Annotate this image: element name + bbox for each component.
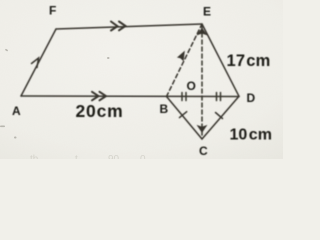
arrow mark on AF: [32, 58, 39, 68]
line AF: [21, 29, 56, 96]
double arrow mark on AB (chevron 2): [100, 92, 107, 101]
svg-text:t: t: [75, 154, 78, 159]
arrowhead down on EC near C: [198, 126, 206, 132]
line FE: [56, 24, 202, 29]
double tick on BO: [182, 93, 186, 101]
faint scan speckles: [0, 49, 110, 139]
svg-text:D: D: [247, 91, 256, 105]
line ED: [202, 24, 239, 96]
line BC: [167, 97, 203, 140]
dashed line EC (vertical through O): [201, 26, 203, 138]
line AD (horizontal through B and O): [21, 95, 239, 98]
svg-text:0: 0: [140, 154, 146, 159]
svg-text:th: th: [30, 154, 38, 159]
svg-text:E: E: [203, 5, 211, 19]
double arrow mark on AB (chevron 1): [92, 92, 99, 101]
arrowhead up on EC near E: [198, 29, 206, 35]
double tick on OD: [217, 93, 221, 101]
svg-text:O: O: [187, 79, 196, 93]
paper grain: [0, 0, 283, 159]
svg-text:20cm: 20cm: [76, 101, 124, 121]
double arrow mark on FE (chevron 2): [119, 22, 126, 31]
svg-text:A: A: [12, 104, 21, 118]
faint cropped caption at bottom edge: [30, 154, 146, 165]
arrow mark on BE: [178, 52, 184, 60]
line CD: [202, 96, 239, 139]
svg-text:B: B: [160, 102, 169, 116]
svg-text:90: 90: [108, 154, 120, 159]
svg-text:10cm: 10cm: [230, 127, 272, 144]
dashed line BE: [167, 25, 202, 97]
svg-text:17cm: 17cm: [227, 52, 271, 70]
single tick on CD: [216, 113, 223, 119]
double arrow mark on FE (chevron 1): [111, 22, 118, 31]
svg-text:F: F: [49, 4, 56, 18]
single tick on BC: [180, 112, 187, 118]
svg-text:C: C: [199, 144, 208, 158]
paper background: [0, 0, 283, 159]
